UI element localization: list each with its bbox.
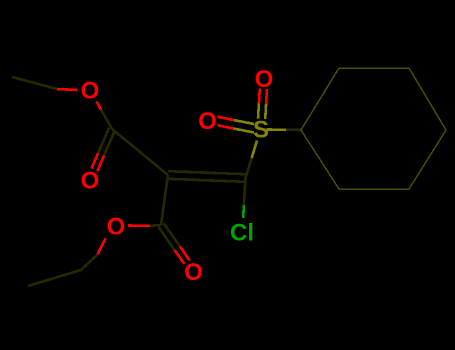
svg-text:O: O	[198, 108, 217, 135]
svg-text:O: O	[255, 66, 274, 93]
svg-text:O: O	[184, 259, 203, 286]
svg-text:S: S	[253, 117, 269, 144]
svg-text:Cl: Cl	[230, 220, 254, 247]
svg-text:O: O	[81, 78, 100, 105]
svg-text:O: O	[107, 214, 126, 241]
svg-text:O: O	[81, 168, 100, 195]
